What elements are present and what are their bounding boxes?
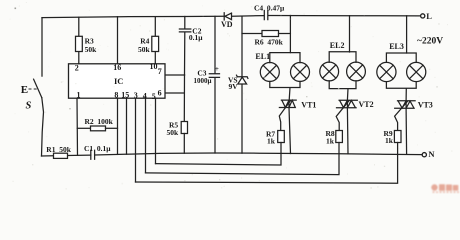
wire EL3 feed <box>406 16 408 53</box>
svg-text:50k: 50k <box>138 45 151 54</box>
switch linkage dashes <box>29 88 39 90</box>
wire R5 to rail <box>183 134 185 154</box>
triac VT3 <box>395 101 415 108</box>
wire pin7 <box>165 74 185 76</box>
wire top rail L <box>42 16 420 18</box>
svg-text:EL3: EL3 <box>389 42 404 51</box>
resistor R4 <box>152 36 159 51</box>
lamp EL3b <box>407 62 426 81</box>
svg-text:1: 1 <box>77 91 81 100</box>
svg-text:6: 6 <box>158 89 162 98</box>
zener VS <box>237 75 248 84</box>
svg-text:EL2: EL2 <box>330 41 345 50</box>
wire pin2 vertical <box>78 17 80 64</box>
svg-text:8: 8 <box>114 90 118 99</box>
wire pin3 drop <box>135 98 137 182</box>
node N terminal <box>422 153 426 157</box>
capacitor C4 <box>264 11 268 20</box>
svg-text:9V: 9V <box>229 82 239 91</box>
wire pin6 <box>165 75 185 122</box>
lamp EL2a <box>320 62 339 81</box>
wire pin4 drop <box>145 98 147 173</box>
wire left frame upper <box>41 18 43 77</box>
watermark icon <box>431 184 459 193</box>
svg-text:VT3: VT3 <box>418 100 433 109</box>
wire VT3 gate <box>395 101 408 130</box>
triac VT1 <box>279 100 296 107</box>
svg-text:C3: C3 <box>197 68 206 77</box>
wire R8 to pin4 line <box>146 143 340 175</box>
svg-text:3: 3 <box>134 91 138 100</box>
wire pin5 drop <box>155 98 157 163</box>
resistor R6 <box>242 33 262 35</box>
lamp EL3a <box>377 62 396 81</box>
resistor R2 <box>77 127 90 129</box>
svg-text:EL1: EL1 <box>255 52 270 61</box>
wire pin1 drop <box>76 98 79 155</box>
svg-text:0.1μ: 0.1μ <box>189 33 203 42</box>
switch S <box>34 79 42 98</box>
lamp group EL2 <box>329 52 356 100</box>
IC U1 box <box>69 64 166 98</box>
wire EL2 feed <box>349 16 351 52</box>
svg-text:2: 2 <box>75 64 79 73</box>
wire R9 to pin3 line <box>136 143 398 184</box>
svg-text:~220V: ~220V <box>417 37 443 47</box>
svg-text:S: S <box>26 101 32 112</box>
svg-text:1k: 1k <box>326 136 335 145</box>
wire pin15 drop <box>126 98 128 154</box>
resistor R3 <box>76 36 83 51</box>
svg-text:R6 470k: R6 470k <box>255 38 284 47</box>
wire pin16 vertical <box>117 17 119 64</box>
paper speckle noise <box>10 2 453 190</box>
resistor R5 <box>181 122 187 134</box>
svg-text:R1 50k: R1 50k <box>46 145 71 154</box>
lamp EL2b <box>347 62 366 81</box>
lamp EL1b <box>291 63 310 82</box>
svg-text:4: 4 <box>143 92 147 101</box>
svg-text:C1 0.1μ: C1 0.1μ <box>84 144 111 153</box>
svg-text:+: + <box>215 66 219 73</box>
wire VS branch vertical <box>241 16 243 153</box>
svg-text:50k: 50k <box>167 128 180 137</box>
svg-text:50k: 50k <box>85 45 98 54</box>
svg-text:L: L <box>426 11 432 21</box>
wire R7 to pin5 line <box>156 143 282 166</box>
svg-text:7: 7 <box>158 67 162 76</box>
svg-text:VT1: VT1 <box>301 100 316 109</box>
svg-text:R2 100k: R2 100k <box>85 117 114 126</box>
wire bottom rail N <box>42 153 423 156</box>
svg-text:N: N <box>428 149 435 159</box>
wire pin8 drop <box>117 98 119 154</box>
svg-text:10: 10 <box>150 62 158 71</box>
svg-text:IC: IC <box>114 76 123 86</box>
resistor R1 <box>54 153 68 158</box>
svg-text:VT2: VT2 <box>359 100 374 109</box>
wire VT3 main <box>405 108 408 154</box>
svg-text:15: 15 <box>121 90 129 99</box>
wire VT2 main <box>346 108 349 154</box>
svg-text:1k: 1k <box>385 136 394 145</box>
capacitor C2 <box>179 17 190 76</box>
capacitor C1 <box>91 150 95 159</box>
resistor R7 <box>278 131 285 143</box>
svg-text:C4 0.47μ: C4 0.47μ <box>254 4 285 13</box>
wire pin10 vertical <box>154 17 156 64</box>
resistor R8 <box>336 131 343 143</box>
wire VT1 main <box>289 108 291 154</box>
svg-text:1000μ: 1000μ <box>194 77 212 85</box>
node L terminal <box>421 14 425 18</box>
triac VT2 <box>337 100 358 108</box>
capacitor C3 <box>209 16 219 153</box>
wire VT1 gate <box>279 101 290 131</box>
diode VD <box>224 13 231 20</box>
wire EL1 feed <box>289 16 291 53</box>
svg-text:VD: VD <box>221 20 233 29</box>
lamp group EL3 <box>386 53 416 101</box>
svg-text:1k: 1k <box>267 136 276 145</box>
lamp group EL1 <box>270 53 300 101</box>
resistor R9 <box>394 131 401 143</box>
wire left frame lower <box>42 98 44 156</box>
svg-text:5: 5 <box>152 92 156 101</box>
lamp EL1a <box>260 63 279 82</box>
wire VT2 gate <box>336 101 349 131</box>
svg-text:E: E <box>21 84 28 96</box>
